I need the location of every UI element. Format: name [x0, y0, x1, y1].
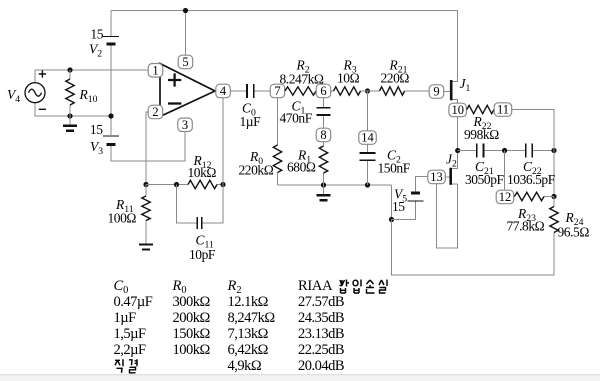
wire R11 stubs — [145, 185, 147, 245]
resistor R1 — [319, 146, 327, 173]
pin 8 — [316, 128, 331, 142]
svg-text:14: 14 — [361, 131, 374, 145]
capacitor C11 — [197, 217, 202, 229]
svg-text:150nF: 150nF — [378, 161, 411, 176]
svg-text:13: 13 — [430, 170, 443, 184]
svg-text:1036.5pF: 1036.5pF — [507, 172, 556, 187]
svg-text:300kΩ: 300kΩ — [173, 294, 211, 310]
svg-text:8: 8 — [320, 128, 326, 142]
pin 5 — [178, 55, 193, 68]
pin 7 — [270, 84, 285, 98]
svg-text:1µF: 1µF — [240, 114, 262, 129]
footer strip — [0, 375, 600, 381]
resistor R2 — [285, 87, 316, 95]
op-amp plus input sign — [168, 73, 181, 86]
ground mid rail — [317, 194, 331, 196]
node junction feedback/R11 — [143, 182, 148, 187]
svg-text:10kΩ: 10kΩ — [188, 165, 217, 180]
wire ground stub rail — [323, 185, 325, 195]
svg-text:RIAA: RIAA — [298, 278, 333, 294]
node junction V5 bottom — [389, 217, 394, 222]
table row 5 C0 value 직결 — [115, 359, 123, 373]
svg-text:3050pF: 3050pF — [465, 172, 505, 187]
ground V4 — [63, 125, 77, 127]
pin 14 — [359, 131, 377, 145]
svg-text:10: 10 — [451, 103, 464, 117]
node junction C11 left — [174, 182, 179, 187]
wire R1 to rail — [323, 173, 325, 185]
battery V5 — [407, 200, 423, 202]
wire C21 left lead — [458, 150, 477, 152]
node junction R3/R21 — [365, 88, 370, 93]
wire node11 to right column — [512, 110, 555, 151]
op-amp minus input sign — [168, 102, 181, 104]
wire J2 drain lead — [452, 151, 458, 169]
wire ground stub V4 — [69, 116, 71, 125]
svg-text:6,42kΩ: 6,42kΩ — [228, 342, 269, 358]
svg-text:0.47µF: 0.47µF — [114, 294, 153, 310]
capacitor C2 — [359, 153, 375, 160]
wire rail down to V5 bottom — [391, 185, 393, 220]
svg-text:100Ω: 100Ω — [108, 211, 137, 226]
source V4 — [25, 83, 45, 103]
wire V5 top to node13 — [415, 177, 427, 193]
resistor R12 — [188, 180, 217, 188]
wire J2 source lead — [452, 183, 458, 185]
resistor R0 — [273, 145, 281, 173]
svg-text:10pF: 10pF — [189, 247, 216, 262]
svg-text:10Ω: 10Ω — [337, 71, 360, 86]
node junction rail/pin5 — [183, 8, 188, 13]
wire node8 to R1 — [323, 142, 325, 147]
svg-text:1µF: 1µF — [114, 310, 137, 326]
wire C21-C22 link — [483, 150, 525, 152]
transistor J2 — [449, 168, 452, 185]
wire op-amp pin5 to rail — [185, 11, 187, 56]
svg-text:100kΩ: 100kΩ — [173, 342, 211, 358]
wire pin4 to C0 — [231, 90, 247, 92]
svg-text:77.8kΩ: 77.8kΩ — [507, 219, 545, 234]
wire J1 gate lead — [444, 91, 451, 93]
table header korean 삽입손실 — [340, 280, 350, 294]
node junction V2/V3 midpoint — [108, 113, 113, 118]
wire V2 to V3 link — [110, 44, 112, 135]
pin 3 — [178, 118, 193, 132]
svg-text:27.57dB: 27.57dB — [298, 294, 344, 310]
pin 2 — [148, 105, 163, 119]
wire J1 drain to rail — [452, 11, 458, 82]
capacitor C0 — [247, 84, 254, 98]
wire C0 to node7 — [254, 90, 270, 92]
op-amp U1 triangle — [160, 64, 215, 117]
svg-text:6: 6 — [320, 84, 326, 98]
wire node13 source loop — [437, 184, 458, 249]
capacitor C22 — [526, 144, 533, 158]
capacitor C1 — [316, 108, 330, 115]
pin 1 — [148, 64, 163, 78]
resistor R23 — [515, 192, 545, 200]
resistor R3 — [334, 87, 361, 95]
label V4 plus — [39, 70, 46, 77]
wire R10 stubs — [69, 70, 71, 116]
wire R21 leads — [368, 90, 430, 92]
svg-text:7,13kΩ: 7,13kΩ — [228, 326, 269, 342]
svg-text:998kΩ: 998kΩ — [464, 127, 499, 142]
wire R0 to ground rail — [277, 173, 279, 186]
node junction R10 top — [67, 67, 72, 72]
pin 11 — [494, 103, 512, 117]
svg-text:96.5Ω: 96.5Ω — [558, 225, 590, 240]
svg-text:15: 15 — [90, 122, 103, 137]
node junction R12 right — [220, 182, 225, 187]
wire C11 loop — [177, 185, 224, 224]
svg-text:1: 1 — [152, 64, 158, 78]
node junction R23/R24 — [551, 194, 556, 199]
pin 4 — [216, 84, 231, 98]
wire pin2 to feedback node — [146, 112, 149, 185]
wire R3 leads — [331, 90, 368, 92]
svg-text:2,2µF: 2,2µF — [114, 342, 146, 358]
svg-text:12: 12 — [499, 190, 512, 204]
node junction R1/ground — [321, 182, 326, 187]
wire J2 gate lead — [445, 176, 451, 178]
svg-text:24.35dB: 24.35dB — [298, 310, 344, 326]
svg-text:5: 5 — [182, 55, 188, 69]
svg-text:2: 2 — [152, 105, 158, 119]
svg-text:220Ω: 220Ω — [381, 71, 410, 86]
svg-text:9: 9 — [433, 85, 439, 99]
wire V3 to pin3 — [111, 131, 185, 161]
wire node6 to C1 — [323, 98, 325, 108]
wire node7 down to R0 — [277, 98, 279, 145]
svg-text:1,5µF: 1,5µF — [114, 326, 146, 342]
wire R24 top stub — [553, 197, 555, 207]
node junction J2 drain/C21 — [455, 148, 460, 153]
node junction C22/R24 top — [551, 148, 556, 153]
resistor R11 — [142, 196, 150, 221]
wire R24 bottom return loop — [392, 220, 555, 276]
wire top +15V rail — [111, 10, 458, 12]
svg-text:220kΩ: 220kΩ — [239, 163, 274, 178]
resistor R22 — [467, 105, 494, 113]
wire op-amp output feedback drop — [222, 98, 224, 185]
svg-text:8.247kΩ: 8.247kΩ — [280, 72, 324, 87]
wire V2 top lead — [110, 11, 112, 37]
svg-text:22.25dB: 22.25dB — [298, 342, 344, 358]
wire R12 row — [146, 184, 223, 186]
svg-text:470nF: 470nF — [280, 111, 313, 126]
capacitor C21 — [477, 144, 484, 158]
svg-text:680Ω: 680Ω — [287, 160, 316, 175]
pin 10 — [449, 103, 467, 117]
node junction C21/C22/node12 — [502, 148, 507, 153]
svg-text:4,9kΩ: 4,9kΩ — [228, 358, 262, 374]
pin 12 — [496, 190, 514, 204]
wire V4 minus lead — [35, 103, 111, 117]
wire V4 plus lead — [35, 70, 148, 83]
wire J1 source lead — [452, 99, 458, 103]
ground R11 — [139, 243, 153, 245]
wire node10 down to C21 row — [457, 117, 459, 151]
pin 6 — [316, 84, 331, 98]
wire C1 to node8 — [323, 116, 325, 129]
svg-text:15: 15 — [392, 199, 405, 214]
resistor R24 — [550, 207, 558, 233]
wire R23 left lead — [514, 196, 515, 198]
wire node14 to C2 — [367, 145, 369, 153]
node junction R10 bottom — [67, 113, 72, 118]
svg-text:200kΩ: 200kΩ — [173, 310, 211, 326]
svg-text:11: 11 — [497, 103, 509, 117]
resistor R21 — [380, 87, 405, 95]
wire junction to node14 — [367, 91, 369, 131]
wire mid ground rail — [278, 184, 392, 186]
svg-text:4: 4 — [220, 84, 227, 98]
svg-text:15: 15 — [90, 27, 103, 42]
label V4 minus — [39, 108, 46, 110]
svg-text:12.1kΩ: 12.1kΩ — [228, 294, 269, 310]
node junction C2/rail — [365, 182, 370, 187]
wire node12 stub — [504, 151, 506, 191]
svg-text:23.13dB: 23.13dB — [298, 326, 344, 342]
pin 9 — [429, 85, 444, 99]
pin 13 — [428, 170, 446, 184]
wire C22 right lead — [532, 150, 554, 152]
wire V5 bottom lead — [392, 202, 416, 220]
svg-text:8,247kΩ: 8,247kΩ — [228, 310, 276, 326]
wire R23 right lead — [544, 196, 554, 198]
battery V3 — [103, 135, 119, 137]
svg-text:3: 3 — [182, 118, 188, 132]
resistor R10 — [66, 79, 74, 105]
battery V2 — [103, 36, 119, 38]
transistor J1 — [450, 80, 453, 100]
svg-text:20.04dB: 20.04dB — [298, 358, 344, 374]
wire right column C22 to R23 — [553, 151, 555, 197]
svg-text:150kΩ: 150kΩ — [173, 326, 211, 342]
wire C2 to rail — [367, 161, 369, 185]
